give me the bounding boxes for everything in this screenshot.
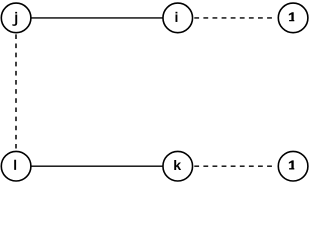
- wire l-k solid edge: [16, 165, 178, 167]
- wire j-l dashed edge (vertical): [15, 34, 17, 149]
- svg-text:k: k: [173, 158, 181, 174]
- node i: [163, 3, 193, 33]
- wire i-1 dashed edge (top): [194, 17, 273, 19]
- node 1 (top right): [278, 3, 308, 33]
- node j: [1, 3, 31, 33]
- node k: [163, 151, 193, 181]
- node l: [1, 151, 31, 181]
- node 1 (bottom right): [278, 151, 308, 181]
- wire k-1 dashed edge (bottom): [194, 165, 273, 167]
- wire j-i solid edge: [16, 17, 178, 19]
